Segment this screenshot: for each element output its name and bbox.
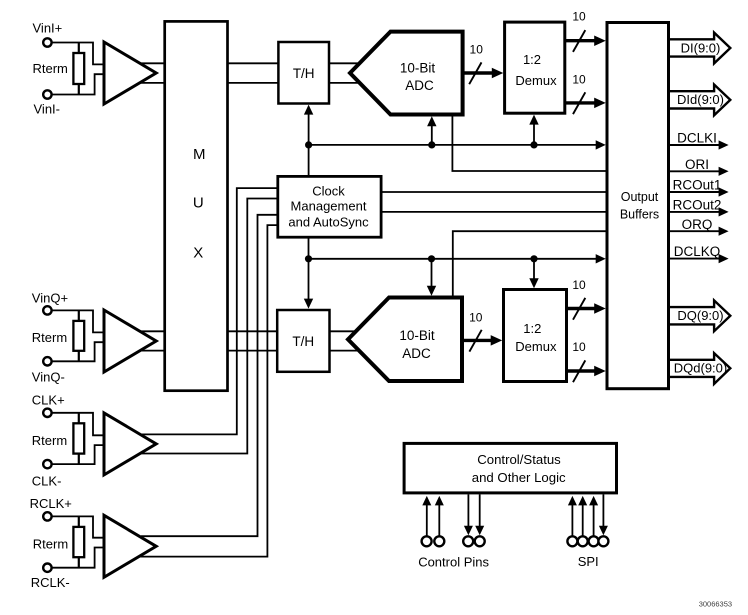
block 1:2 Demux (I) bbox=[505, 22, 565, 113]
svg-text:10: 10 bbox=[572, 10, 586, 24]
block Control/Status and Other Logic bbox=[404, 443, 616, 493]
output DCLKI bbox=[670, 140, 729, 149]
pin circle control 4 bbox=[475, 536, 485, 546]
svg-text:RCLK-: RCLK- bbox=[31, 575, 70, 590]
wire channel Q minus bbox=[135, 350, 360, 352]
svg-text:ORI: ORI bbox=[685, 157, 709, 172]
wire VinQ- input to buffer A2 bbox=[51, 342, 104, 361]
svg-text:RCLK+: RCLK+ bbox=[30, 496, 72, 511]
svg-text:RCOut2: RCOut2 bbox=[673, 197, 722, 212]
svg-text:Clock: Clock bbox=[312, 183, 345, 198]
junction at ADC1 clock branch bbox=[428, 141, 435, 148]
svg-text:Rterm: Rterm bbox=[32, 433, 67, 448]
svg-text:VinI-: VinI- bbox=[34, 102, 61, 117]
wire RCOut2 from Clock Management to Output Buffers bbox=[381, 211, 606, 213]
pin VinI+ bbox=[43, 38, 51, 46]
wire RCLK buffer output B to Clock Management bbox=[140, 225, 278, 556]
junction at Demux1 clock branch bbox=[530, 141, 537, 148]
svg-text:Rterm: Rterm bbox=[32, 330, 67, 345]
svg-text:Demux: Demux bbox=[515, 73, 557, 88]
pin circle control 1 bbox=[422, 536, 432, 546]
bus Demux1 to Output Buffers lower bbox=[565, 101, 596, 104]
output RCOut1 bbox=[670, 187, 729, 196]
svg-text:VinQ+: VinQ+ bbox=[32, 291, 68, 306]
pin circle control 3 bbox=[463, 536, 473, 546]
wire clock to ADC2 with arrow bbox=[427, 259, 436, 296]
wire clock to Demux1 with arrow bbox=[529, 115, 538, 145]
svg-text:10: 10 bbox=[470, 42, 484, 56]
bus ADC2 to Demux2 bbox=[462, 339, 492, 342]
svg-text:ORQ: ORQ bbox=[682, 217, 713, 232]
svg-text:DCLKQ: DCLKQ bbox=[674, 244, 721, 259]
resistor Rterm (RCLK+/RCLK-) bbox=[73, 516, 84, 567]
svg-text:T/H: T/H bbox=[292, 334, 314, 349]
wire clock to ADC1 with arrow bbox=[427, 116, 436, 145]
pin VinQ- bbox=[43, 357, 51, 365]
junction at T/H2 clock branch bbox=[305, 255, 312, 262]
pin circle SPI 1 bbox=[567, 536, 577, 546]
svg-text:X: X bbox=[193, 245, 203, 262]
wire clock to Demux2 with arrow bbox=[529, 259, 538, 288]
svg-text:CLK+: CLK+ bbox=[32, 392, 65, 407]
resistor Rterm (VinI+/VinI-) bbox=[73, 43, 84, 95]
svg-text:Rterm: Rterm bbox=[33, 537, 68, 552]
wire channel I plus (buffer A1 through MUX and T/H1 to ADC1) bbox=[135, 62, 362, 64]
bus Demux1 to Output Buffers upper bbox=[565, 39, 596, 42]
wire CLK buffer output A to Clock Management bbox=[140, 188, 278, 434]
svg-text:and Other Logic: and Other Logic bbox=[472, 470, 566, 485]
block T/H 1 bbox=[278, 42, 329, 104]
SPI pin 1 (arrow up) bbox=[568, 496, 577, 536]
buffer A4 bbox=[104, 515, 156, 577]
pin circle control 2 bbox=[434, 536, 444, 546]
svg-text:Rterm: Rterm bbox=[33, 61, 68, 76]
pin RCLK+ bbox=[43, 512, 51, 520]
block MUX bbox=[165, 21, 228, 390]
svg-text:1:2: 1:2 bbox=[523, 52, 541, 67]
SPI pin 4 (arrow down) bbox=[599, 494, 608, 535]
pin CLK+ bbox=[43, 409, 51, 417]
wire I-channel clock distribution to Output Buffers bbox=[309, 140, 606, 149]
output bus arrow DId(9:0) bbox=[670, 85, 730, 116]
ADC1 10-Bit ADC bbox=[350, 32, 463, 115]
svg-text:10-Bit: 10-Bit bbox=[399, 328, 435, 343]
wire ORQ from ADC2 to Output Buffers bbox=[453, 231, 606, 297]
svg-text:T/H: T/H bbox=[293, 66, 315, 81]
svg-text:VinQ-: VinQ- bbox=[32, 370, 65, 385]
svg-text:DId(9:0): DId(9:0) bbox=[677, 92, 724, 107]
block 1:2 Demux (Q) bbox=[504, 290, 567, 382]
wire channel I minus bbox=[135, 82, 362, 84]
svg-text:RCOut1: RCOut1 bbox=[673, 178, 722, 193]
buffer A1 bbox=[104, 42, 156, 104]
svg-text:10: 10 bbox=[572, 73, 586, 87]
svg-text:M: M bbox=[193, 146, 206, 163]
wire VinQ+ input to buffer A2 bbox=[51, 310, 104, 332]
svg-text:CLK-: CLK- bbox=[32, 474, 62, 489]
control pin output 1 (arrow down) bbox=[464, 494, 473, 535]
wire RCLK- input to buffer A4 bbox=[51, 548, 104, 568]
pin VinQ+ bbox=[43, 306, 51, 314]
control pin input 2 (arrow up) bbox=[435, 496, 444, 536]
svg-text:Management: Management bbox=[291, 198, 367, 213]
wire Clock Management bottom to T/H2 with arrow bbox=[304, 237, 313, 308]
resistor Rterm (CLK+/CLK-) bbox=[73, 413, 84, 464]
wire CLK- input to buffer A3 bbox=[51, 445, 104, 464]
wire ORI from ADC1 to Output Buffers bbox=[452, 115, 605, 172]
bus ADC1 to Demux1 bbox=[463, 71, 494, 74]
SPI pin 2 (arrow up) bbox=[578, 496, 587, 536]
pin RCLK- bbox=[43, 564, 51, 572]
buffer A2 bbox=[104, 310, 156, 372]
bus slash ADC1-Demux1 bbox=[469, 62, 481, 84]
svg-text:DQd(9:0): DQd(9:0) bbox=[674, 361, 727, 376]
bus Demux2 to Output Buffers lower bbox=[567, 369, 596, 372]
pin VinI- bbox=[43, 90, 51, 98]
svg-text:30066353: 30066353 bbox=[699, 600, 732, 609]
bus slash Demux1 lower bbox=[573, 92, 585, 114]
output RCOut2 bbox=[670, 207, 729, 216]
block Output Buffers bbox=[607, 23, 669, 389]
svg-text:Demux: Demux bbox=[515, 339, 557, 354]
wire VinI+ input to buffer A1 bbox=[51, 43, 104, 65]
svg-text:10: 10 bbox=[469, 310, 483, 324]
svg-text:10: 10 bbox=[572, 340, 586, 354]
pin circle SPI 3 bbox=[589, 536, 599, 546]
svg-text:DCLKI: DCLKI bbox=[677, 131, 717, 146]
buffer A3 bbox=[104, 413, 156, 475]
output bus arrow DI(9:0) bbox=[670, 33, 730, 64]
wire RCOut1 from Clock Management to Output Buffers bbox=[381, 191, 606, 193]
wire clock to T/H1 with arrow bbox=[304, 105, 313, 177]
svg-text:Control/Status: Control/Status bbox=[477, 452, 561, 467]
junction at ADC2 clock branch bbox=[428, 255, 435, 262]
output bus arrow DQd(9:0) bbox=[670, 353, 730, 384]
wire RCLK buffer output A to Clock Management bbox=[141, 215, 278, 536]
svg-text:1:2: 1:2 bbox=[523, 321, 541, 336]
svg-text:Buffers: Buffers bbox=[620, 208, 659, 222]
wire RCLK+ input to buffer A4 bbox=[51, 516, 104, 537]
svg-text:VinI+: VinI+ bbox=[33, 21, 63, 36]
ADC2 10-Bit ADC bbox=[348, 298, 462, 382]
control pin output 2 (arrow down) bbox=[475, 494, 484, 535]
resistor Rterm (VinQ+/VinQ-) bbox=[73, 310, 84, 361]
pin CLK- bbox=[43, 460, 51, 468]
wire CLK+ input to buffer A3 bbox=[51, 413, 104, 436]
svg-text:ADC: ADC bbox=[402, 346, 431, 361]
block T/H 2 bbox=[277, 310, 329, 372]
svg-text:Control Pins: Control Pins bbox=[418, 554, 489, 569]
bus slash Demux2 lower bbox=[573, 360, 585, 382]
svg-text:10: 10 bbox=[572, 278, 586, 292]
pin circle SPI 2 bbox=[578, 536, 588, 546]
wire VinI- input to buffer A1 bbox=[51, 74, 104, 94]
junction at Demux2 clock branch bbox=[530, 255, 537, 262]
wire CLK buffer output B to Clock Management bbox=[139, 199, 278, 454]
svg-text:and AutoSync: and AutoSync bbox=[288, 214, 369, 229]
svg-text:U: U bbox=[193, 195, 204, 212]
bus Demux2 to Output Buffers upper bbox=[567, 307, 596, 310]
output ORI bbox=[670, 167, 729, 176]
SPI pin 3 (arrow up) bbox=[589, 496, 598, 536]
bus slash Demux2 upper bbox=[573, 298, 585, 320]
bus slash ADC2-Demux2 bbox=[469, 330, 481, 352]
pin circle SPI 4 bbox=[598, 536, 608, 546]
svg-text:10-Bit: 10-Bit bbox=[400, 60, 436, 75]
bus slash Demux1 upper bbox=[573, 30, 585, 52]
svg-text:SPI: SPI bbox=[578, 554, 599, 569]
block Clock Management and AutoSync bbox=[278, 176, 381, 237]
svg-text:DQ(9:0): DQ(9:0) bbox=[677, 308, 723, 323]
junction at T/H1 clock branch bbox=[305, 141, 312, 148]
svg-text:Output: Output bbox=[621, 190, 659, 204]
control pin input 1 (arrow up) bbox=[422, 496, 431, 536]
svg-text:DI(9:0): DI(9:0) bbox=[681, 40, 721, 55]
output DCLKQ bbox=[670, 254, 729, 263]
output ORQ bbox=[670, 227, 729, 236]
svg-text:ADC: ADC bbox=[405, 78, 434, 93]
output bus arrow DQ(9:0) bbox=[670, 300, 730, 331]
wire Q-channel clock distribution to Output Buffers bbox=[309, 254, 606, 263]
wire channel Q plus (buffer A2 through MUX and T/H2 to ADC2) bbox=[135, 330, 360, 332]
